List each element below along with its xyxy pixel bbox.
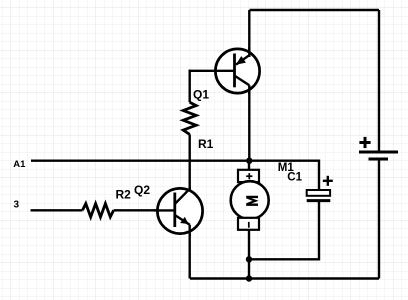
wire Q1 base to R1 <box>188 70 190 103</box>
svg-text:A1: A1 <box>13 159 26 170</box>
transistor Q2 <box>154 187 203 237</box>
junction node C1/motor <box>246 256 252 262</box>
wire Q1 emitter to top rail <box>248 10 250 55</box>
wire battery - to bottom rail <box>378 161 380 279</box>
svg-text:R2: R2 <box>116 188 132 202</box>
wire top rail <box>250 9 380 11</box>
wire R1 bottom to Q2 collector (crosses A1) <box>188 134 190 190</box>
wire Q2 emitter down <box>188 234 190 279</box>
wire Q1 base <box>190 70 216 72</box>
motor M1 <box>231 161 269 279</box>
wire Q1 collector to node <box>248 92 250 161</box>
transistor Q1 <box>215 47 260 94</box>
wire top rail to battery + <box>378 10 380 151</box>
battery V1 <box>359 152 398 159</box>
svg-text:R1: R1 <box>198 137 214 151</box>
wire bottom rail <box>190 277 379 279</box>
capacitor C1 <box>307 190 331 201</box>
svg-text:Q1: Q1 <box>193 87 209 101</box>
svg-text:C1: C1 <box>287 172 302 184</box>
wire net A1 to capacitor C1 <box>31 161 319 190</box>
junction node at motor top <box>246 158 252 164</box>
junction node bottom rail <box>246 275 252 281</box>
svg-text:Q2: Q2 <box>134 183 150 197</box>
resistor R2 <box>83 204 114 217</box>
wire R2 to Q2 base <box>114 209 173 211</box>
svg-text:3: 3 <box>14 199 20 210</box>
capacitor C1 plus sign <box>323 176 333 186</box>
resistor R1 <box>183 102 196 134</box>
wire C1 to motor bottom <box>249 202 319 259</box>
wire net 3 to R2 <box>31 209 83 211</box>
battery V1 plus sign <box>359 137 370 148</box>
